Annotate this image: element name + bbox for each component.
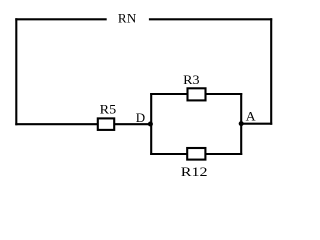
node D (148, 122, 153, 127)
wire bottom left horizontal (15, 123, 98, 125)
wire R5 to node D (114, 123, 152, 125)
wire top left segment (15, 18, 106, 20)
svg-text:D: D (136, 110, 145, 125)
resistor R12 (187, 148, 205, 160)
svg-text:A: A (246, 108, 257, 123)
svg-text:R5: R5 (100, 102, 117, 117)
resistor R3 (188, 88, 206, 100)
svg-text:R12: R12 (181, 164, 208, 179)
wire bottom branch right (205, 153, 243, 155)
wire right branch vertical (240, 93, 242, 155)
node A (239, 121, 244, 126)
wire left branch vertical (150, 93, 152, 155)
wire top right segment (149, 18, 272, 20)
wire bottom branch left (150, 153, 188, 155)
svg-text:RN: RN (118, 11, 137, 26)
wire node A to right side (240, 123, 272, 125)
wire top branch left (150, 93, 188, 95)
wire top branch right (205, 93, 243, 95)
wire left side vertical (15, 18, 17, 125)
resistor R5 (98, 118, 114, 129)
wire right side vertical (270, 18, 272, 124)
svg-text:R3: R3 (183, 72, 199, 87)
